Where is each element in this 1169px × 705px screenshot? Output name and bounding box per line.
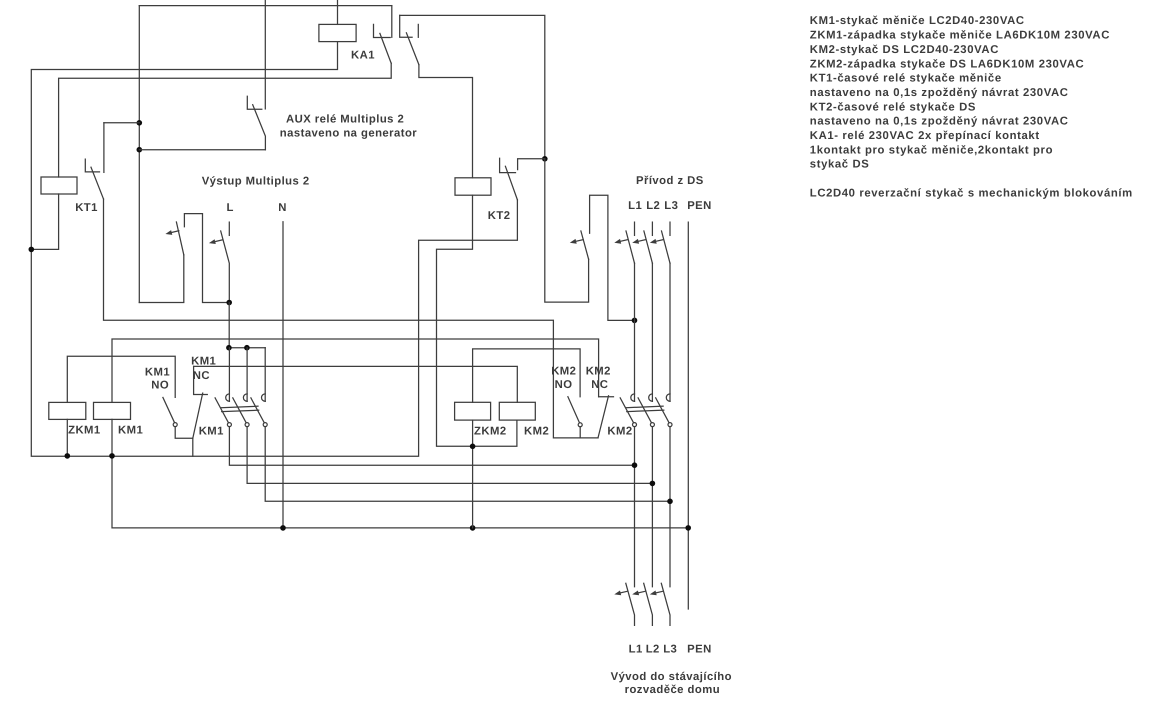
wire KM1 NC top to KM2 coil: [194, 366, 518, 402]
legend line 7: [810, 101, 976, 113]
relay coil KT2: [455, 178, 491, 195]
wire KM2 pole2 out: [651, 427, 653, 587]
label N: [278, 202, 287, 214]
label KM2 poles: [607, 426, 632, 438]
arrow L contact: [209, 239, 222, 244]
label KM2 coil: [524, 425, 549, 437]
legend line 6: [810, 87, 1069, 99]
label L: [227, 202, 234, 214]
linkage KM2 poles: [626, 406, 664, 411]
switch contact on L: [221, 222, 230, 302]
wire N line: [282, 222, 284, 528]
svg-text:NO: NO: [555, 379, 573, 391]
label KM1 NO line2: [151, 379, 169, 391]
svg-text:rozvaděče domu: rozvaděče domu: [625, 684, 720, 696]
contactor pole KM2-3: [656, 394, 672, 427]
contactor pole KM1-1: [215, 348, 231, 427]
node junction ZKM2 return: [470, 444, 476, 450]
node junction AUX return: [137, 147, 143, 153]
node junction DS L1 tie: [632, 318, 638, 324]
label out L3: [663, 643, 677, 655]
wire KM1 poles feed bus from L: [229, 347, 265, 349]
svg-text:AUX relé Multiplus 2: AUX relé Multiplus 2: [286, 113, 404, 125]
contact KT2 (timed): [500, 158, 545, 200]
svg-text:L3: L3: [663, 643, 677, 655]
node junction KM1 pole2 feed: [244, 345, 250, 351]
svg-text:L1: L1: [629, 643, 643, 655]
label vyvod line2: [625, 684, 720, 696]
svg-text:LC2D40 reverzační stykač s mec: LC2D40 reverzační stykač s mechanickým b…: [810, 188, 1133, 200]
svg-text:KM2: KM2: [607, 426, 632, 438]
label DS L2: [646, 200, 660, 212]
svg-text:L2: L2: [646, 643, 660, 655]
wire supply drop to AUX contact: [264, 0, 266, 109]
svg-text:L2: L2: [646, 200, 660, 212]
label AUX rele line2: [280, 128, 417, 140]
svg-text:NC: NC: [193, 370, 210, 382]
svg-text:KT2: KT2: [488, 210, 511, 222]
label KM1 poles: [199, 426, 224, 438]
label KM2 NO line2: [555, 379, 573, 391]
node junction L pole tie: [226, 300, 232, 306]
legend line 9: [810, 130, 1040, 142]
label Privod z DS: [636, 175, 704, 187]
wire KM1 coil bottom to N PEN bus: [112, 419, 688, 528]
label KM2 NC line2: [591, 379, 608, 391]
node junction DS tap to KT2 contact: [542, 156, 548, 162]
contact KT1 (timed): [85, 123, 104, 199]
contactor coil KM2: [499, 402, 535, 420]
contact KM1 NO: [163, 397, 193, 438]
node junction N on bottom bus: [280, 525, 286, 531]
svg-text:KM2: KM2: [586, 365, 611, 377]
legend line 4: [810, 58, 1084, 70]
svg-text:KM1: KM1: [145, 367, 170, 379]
svg-text:Výstup Multiplus 2: Výstup Multiplus 2: [202, 176, 310, 188]
arrow DS L2: [632, 239, 645, 244]
svg-text:KA1- relé 230VAC 2x přepínací: KA1- relé 230VAC 2x přepínací kontakt: [810, 130, 1040, 142]
wire PEN line: [687, 222, 689, 609]
svg-text:KM2: KM2: [524, 425, 549, 437]
contactor coil KM1: [94, 402, 131, 419]
wire phase L1 vertical: [634, 263, 636, 401]
legend line 10: [810, 144, 1053, 156]
contactor pole KM1-3: [251, 348, 267, 427]
switch pole DS L3: [662, 222, 671, 263]
label KT2: [488, 210, 511, 222]
svg-text:ZKM2: ZKM2: [474, 425, 507, 437]
switch pole output L3: [661, 583, 670, 625]
svg-text:NC: NC: [591, 379, 608, 391]
svg-text:KT1-časové relé stykače měniče: KT1-časové relé stykače měniče: [810, 73, 1002, 85]
legend line 8: [810, 116, 1069, 128]
legend line 11: [810, 159, 870, 171]
contact KM1 NC: [193, 366, 208, 438]
svg-text:KM1: KM1: [118, 424, 143, 436]
contact AUX rele Multiplus 2: [247, 96, 265, 149]
wire KT2 coil bottom to ZKM2 KM2 coil bus: [437, 195, 517, 446]
wire L down to KM1 poles bus: [228, 303, 230, 348]
legend line 12: [810, 188, 1133, 200]
svg-text:PEN: PEN: [687, 200, 712, 212]
wire KA1 coil bottom to left rail to KT2-contact bus: [31, 42, 517, 457]
svg-text:1kontakt pro stykač měniče,2ko: 1kontakt pro stykač měniče,2kontakt pro: [810, 144, 1053, 156]
wire KT1 coil bottom return: [31, 194, 58, 249]
wire ZKM2 bottom to PEN bus: [472, 420, 474, 528]
legend line 1: [810, 15, 1025, 27]
node junction KT1 return on left rail: [29, 247, 35, 253]
wire left drop from top rail to Vystup pole return: [138, 6, 140, 303]
arrow DS tap pole: [570, 239, 583, 244]
wire DS tap bottom to KT2 contact drop: [545, 159, 589, 302]
svg-text:KT1: KT1: [75, 202, 98, 214]
arrow Vystup pole: [165, 230, 178, 235]
legend line 5: [810, 73, 1002, 85]
svg-text:KT2-časové relé stykače DS: KT2-časové relé stykače DS: [810, 101, 976, 113]
node junction L to KM1 pole1: [226, 345, 232, 351]
wire KT1 contact output long run to KM2 aux bottoms: [104, 199, 599, 438]
label KA1: [351, 50, 375, 62]
wire supply drop to relay KA1: [337, 0, 339, 24]
arrow DS L3: [650, 239, 663, 244]
relay coil KT1: [41, 177, 77, 194]
arrow output L3: [650, 591, 663, 596]
node junction KT1 feed: [137, 120, 143, 126]
svg-text:nastaveno na 0,1s zpožděný náv: nastaveno na 0,1s zpožděný návrat 230VAC: [810, 116, 1069, 128]
linkage KM1 poles: [221, 406, 259, 411]
label KM2 NO line1: [551, 365, 576, 377]
label KM1 coil: [118, 424, 143, 436]
wire KM1 pole3 out to L3: [265, 427, 670, 502]
node junction KM1 return: [109, 453, 115, 459]
wire phase L2 vertical: [651, 263, 653, 401]
wire AUX contact return: [139, 149, 265, 151]
label KT1: [75, 202, 98, 214]
svg-text:KM2: KM2: [551, 365, 576, 377]
svg-text:KM2-stykač DS LC2D40-230VAC: KM2-stykač DS LC2D40-230VAC: [810, 44, 999, 56]
svg-text:PEN: PEN: [687, 643, 712, 655]
switch pole output L2: [644, 583, 653, 625]
svg-text:NO: NO: [151, 379, 169, 391]
latch coil ZKM1: [49, 402, 86, 419]
label Vystup Multiplus 2: [202, 176, 310, 188]
svg-text:ZKM1-západka stykače měniče LA: ZKM1-západka stykače měniče LA6DK10M 230…: [810, 30, 1110, 42]
contactor pole KM2-2: [638, 394, 654, 427]
legend line 2: [810, 30, 1110, 42]
node junction L1 tie out: [632, 462, 638, 468]
wire KM2 pole3 out: [669, 427, 671, 587]
wire contact2 rail to DS tap: [400, 15, 545, 158]
wire KA1 contact2 to KT2 coil top: [419, 65, 473, 178]
arrow DS L1: [614, 239, 627, 244]
label out L1: [629, 643, 643, 655]
node junction L2 tie out: [650, 481, 656, 487]
svg-text:nastaveno na generator: nastaveno na generator: [280, 128, 417, 140]
arrow output L2: [632, 591, 645, 596]
wire KM1 pole1 out to L1: [229, 427, 634, 466]
wire ZKM1 top to KM1 NO: [67, 356, 175, 402]
svg-text:L1: L1: [628, 200, 642, 212]
wire ZKM2 top to KM2 NO: [473, 349, 580, 402]
svg-text:nastaveno na 0,1s zpožděný náv: nastaveno na 0,1s zpožděný návrat 230VAC: [810, 87, 1069, 99]
label vyvod line1: [611, 671, 732, 683]
latch coil ZKM2: [455, 402, 491, 420]
contact KM2 NC: [598, 396, 614, 438]
switch pole Vystup return (to control): [139, 214, 229, 303]
svg-text:KM1-stykač měniče LC2D40-230VA: KM1-stykač měniče LC2D40-230VAC: [810, 15, 1025, 27]
label KM1 NC line2: [193, 370, 210, 382]
wire phase L3 vertical: [669, 263, 671, 401]
svg-text:Přívod z DS: Přívod z DS: [636, 175, 704, 187]
switch pole DS L1: [626, 222, 635, 263]
arrow output L1: [614, 591, 627, 596]
svg-text:stykač DS: stykač DS: [810, 159, 870, 171]
wire KM1 NC bottom to coil bus: [192, 438, 194, 456]
svg-text:L3: L3: [664, 200, 678, 212]
node junction L3 tie out: [667, 499, 673, 505]
wire KA1 contact1 to KT1 coil top: [59, 63, 392, 177]
switch pole DS L2: [644, 222, 653, 263]
wire top rail: [139, 5, 391, 7]
switch pole output L1: [626, 583, 635, 625]
svg-text:ZKM1: ZKM1: [68, 424, 101, 436]
label ZKM2: [474, 425, 507, 437]
label AUX rele line1: [286, 113, 404, 125]
contact KA1 second (to KT2 coil): [400, 15, 419, 64]
contactor pole KM1-2: [233, 348, 249, 427]
relay coil KA1: [319, 24, 356, 41]
label KM1 NO line1: [145, 367, 170, 379]
wire KM2 pole1 out: [634, 427, 636, 587]
node junction ZKM1 return: [65, 453, 71, 459]
label DS PEN: [687, 200, 712, 212]
wire ZKM1 bottom: [66, 419, 68, 456]
label out L2: [646, 643, 660, 655]
contactor pole KM2-1: [620, 394, 636, 427]
svg-text:ZKM2-západka stykače DS LA6DK1: ZKM2-západka stykače DS LA6DK10M 230VAC: [810, 58, 1084, 70]
svg-text:KM1: KM1: [199, 426, 224, 438]
svg-text:Vývod do stávajícího: Vývod do stávajícího: [611, 671, 732, 683]
wire KM1 coil top to KM2 NC: [112, 339, 599, 402]
label ZKM1: [68, 424, 101, 436]
wire KT1 contact feed: [104, 122, 139, 124]
switch pole DS tap: [581, 195, 635, 320]
label out PEN: [687, 643, 712, 655]
label DS L1: [628, 200, 642, 212]
contact KA1 first (NC to KT1 coil): [374, 6, 392, 64]
wire KM1 pole2 out to L2: [247, 427, 652, 484]
node junction PEN on bottom bus: [685, 525, 691, 531]
contact KM2 NO: [568, 397, 582, 438]
legend line 3: [810, 44, 999, 56]
label KM1 NC line1: [191, 356, 216, 368]
label KM2 NC line1: [586, 365, 611, 377]
svg-text:KA1: KA1: [351, 50, 375, 62]
node junction ZKM2 on bottom bus: [470, 525, 476, 531]
svg-text:N: N: [278, 202, 287, 214]
svg-text:L: L: [227, 202, 234, 214]
label DS L3: [664, 200, 678, 212]
